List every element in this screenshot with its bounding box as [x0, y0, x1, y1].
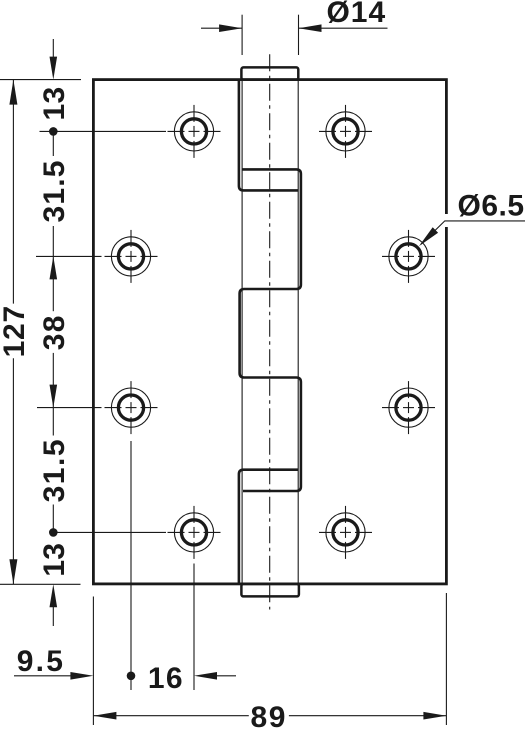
extension line row3 [37, 407, 102, 409]
pin bottom cap [241, 584, 299, 597]
chain dimension 13 (bottom) [38, 528, 71, 626]
hinge leaf body outline [93, 80, 446, 584]
svg-text:38: 38 [38, 314, 71, 350]
extension line row1 [40, 130, 167, 132]
screw hole row3 right [382, 381, 435, 434]
washer 2 + knuckle 5 (left leaf, bottom) [239, 470, 298, 584]
knuckle 1 (left leaf, top) [239, 80, 298, 191]
screw hole row4 right [319, 506, 372, 559]
svg-text:Ø6.5: Ø6.5 [458, 189, 525, 222]
svg-text:31.5: 31.5 [38, 159, 71, 222]
svg-text:16: 16 [148, 662, 184, 695]
svg-text:31.5: 31.5 [38, 438, 71, 502]
svg-text:13: 13 [38, 543, 71, 577]
chain dimension 13 (top) [38, 39, 71, 136]
pin centerline [269, 54, 271, 609]
dimension 127 (overall height) [0, 80, 31, 585]
svg-text:127: 127 [0, 305, 31, 357]
extension line hinge left edge (bottom) [92, 597, 94, 726]
screw hole row1 left [168, 105, 221, 158]
extension line top edge [0, 79, 81, 81]
svg-text:89: 89 [251, 701, 288, 730]
screw hole row2 left [105, 230, 158, 283]
extension line hinge right edge (bottom) [445, 593, 447, 725]
dimension 16 (hole column spacing) [127, 662, 236, 695]
screw hole row4 left [168, 506, 221, 559]
extension line bottom edge [0, 583, 81, 585]
chain dimension 31.5 (upper) [38, 131, 71, 256]
svg-text:Ø14: Ø14 [326, 0, 386, 29]
chain dimension 31.5 (lower) [38, 408, 71, 533]
svg-text:9.5: 9.5 [17, 645, 65, 678]
extension line row4 [56, 531, 166, 533]
pin top cap [241, 67, 298, 79]
extension line outer hole column (bottom) [130, 441, 132, 690]
washer 1 + knuckle 2 (right leaf) + knuckle 3 (left leaf) + knuckle 4 (right leaf) [240, 169, 301, 491]
svg-text:13: 13 [38, 87, 71, 121]
extension line inner hole column (bottom) [193, 564, 195, 691]
pin cylinder inner edges [242, 80, 298, 584]
dimension 89 (overall width) [93, 701, 446, 730]
chain dimension 38 (middle) [38, 256, 71, 407]
dimension 9.5 (edge to first hole column) [14, 645, 93, 680]
extension line row2 [36, 255, 102, 257]
screw hole row3 left [105, 381, 158, 434]
screw hole row2 right [382, 230, 435, 283]
dimension D6.5 (screw hole diameter) leader [419, 189, 525, 246]
dimension D14 (pin diameter) [201, 0, 388, 55]
screw hole row1 right [319, 105, 372, 158]
